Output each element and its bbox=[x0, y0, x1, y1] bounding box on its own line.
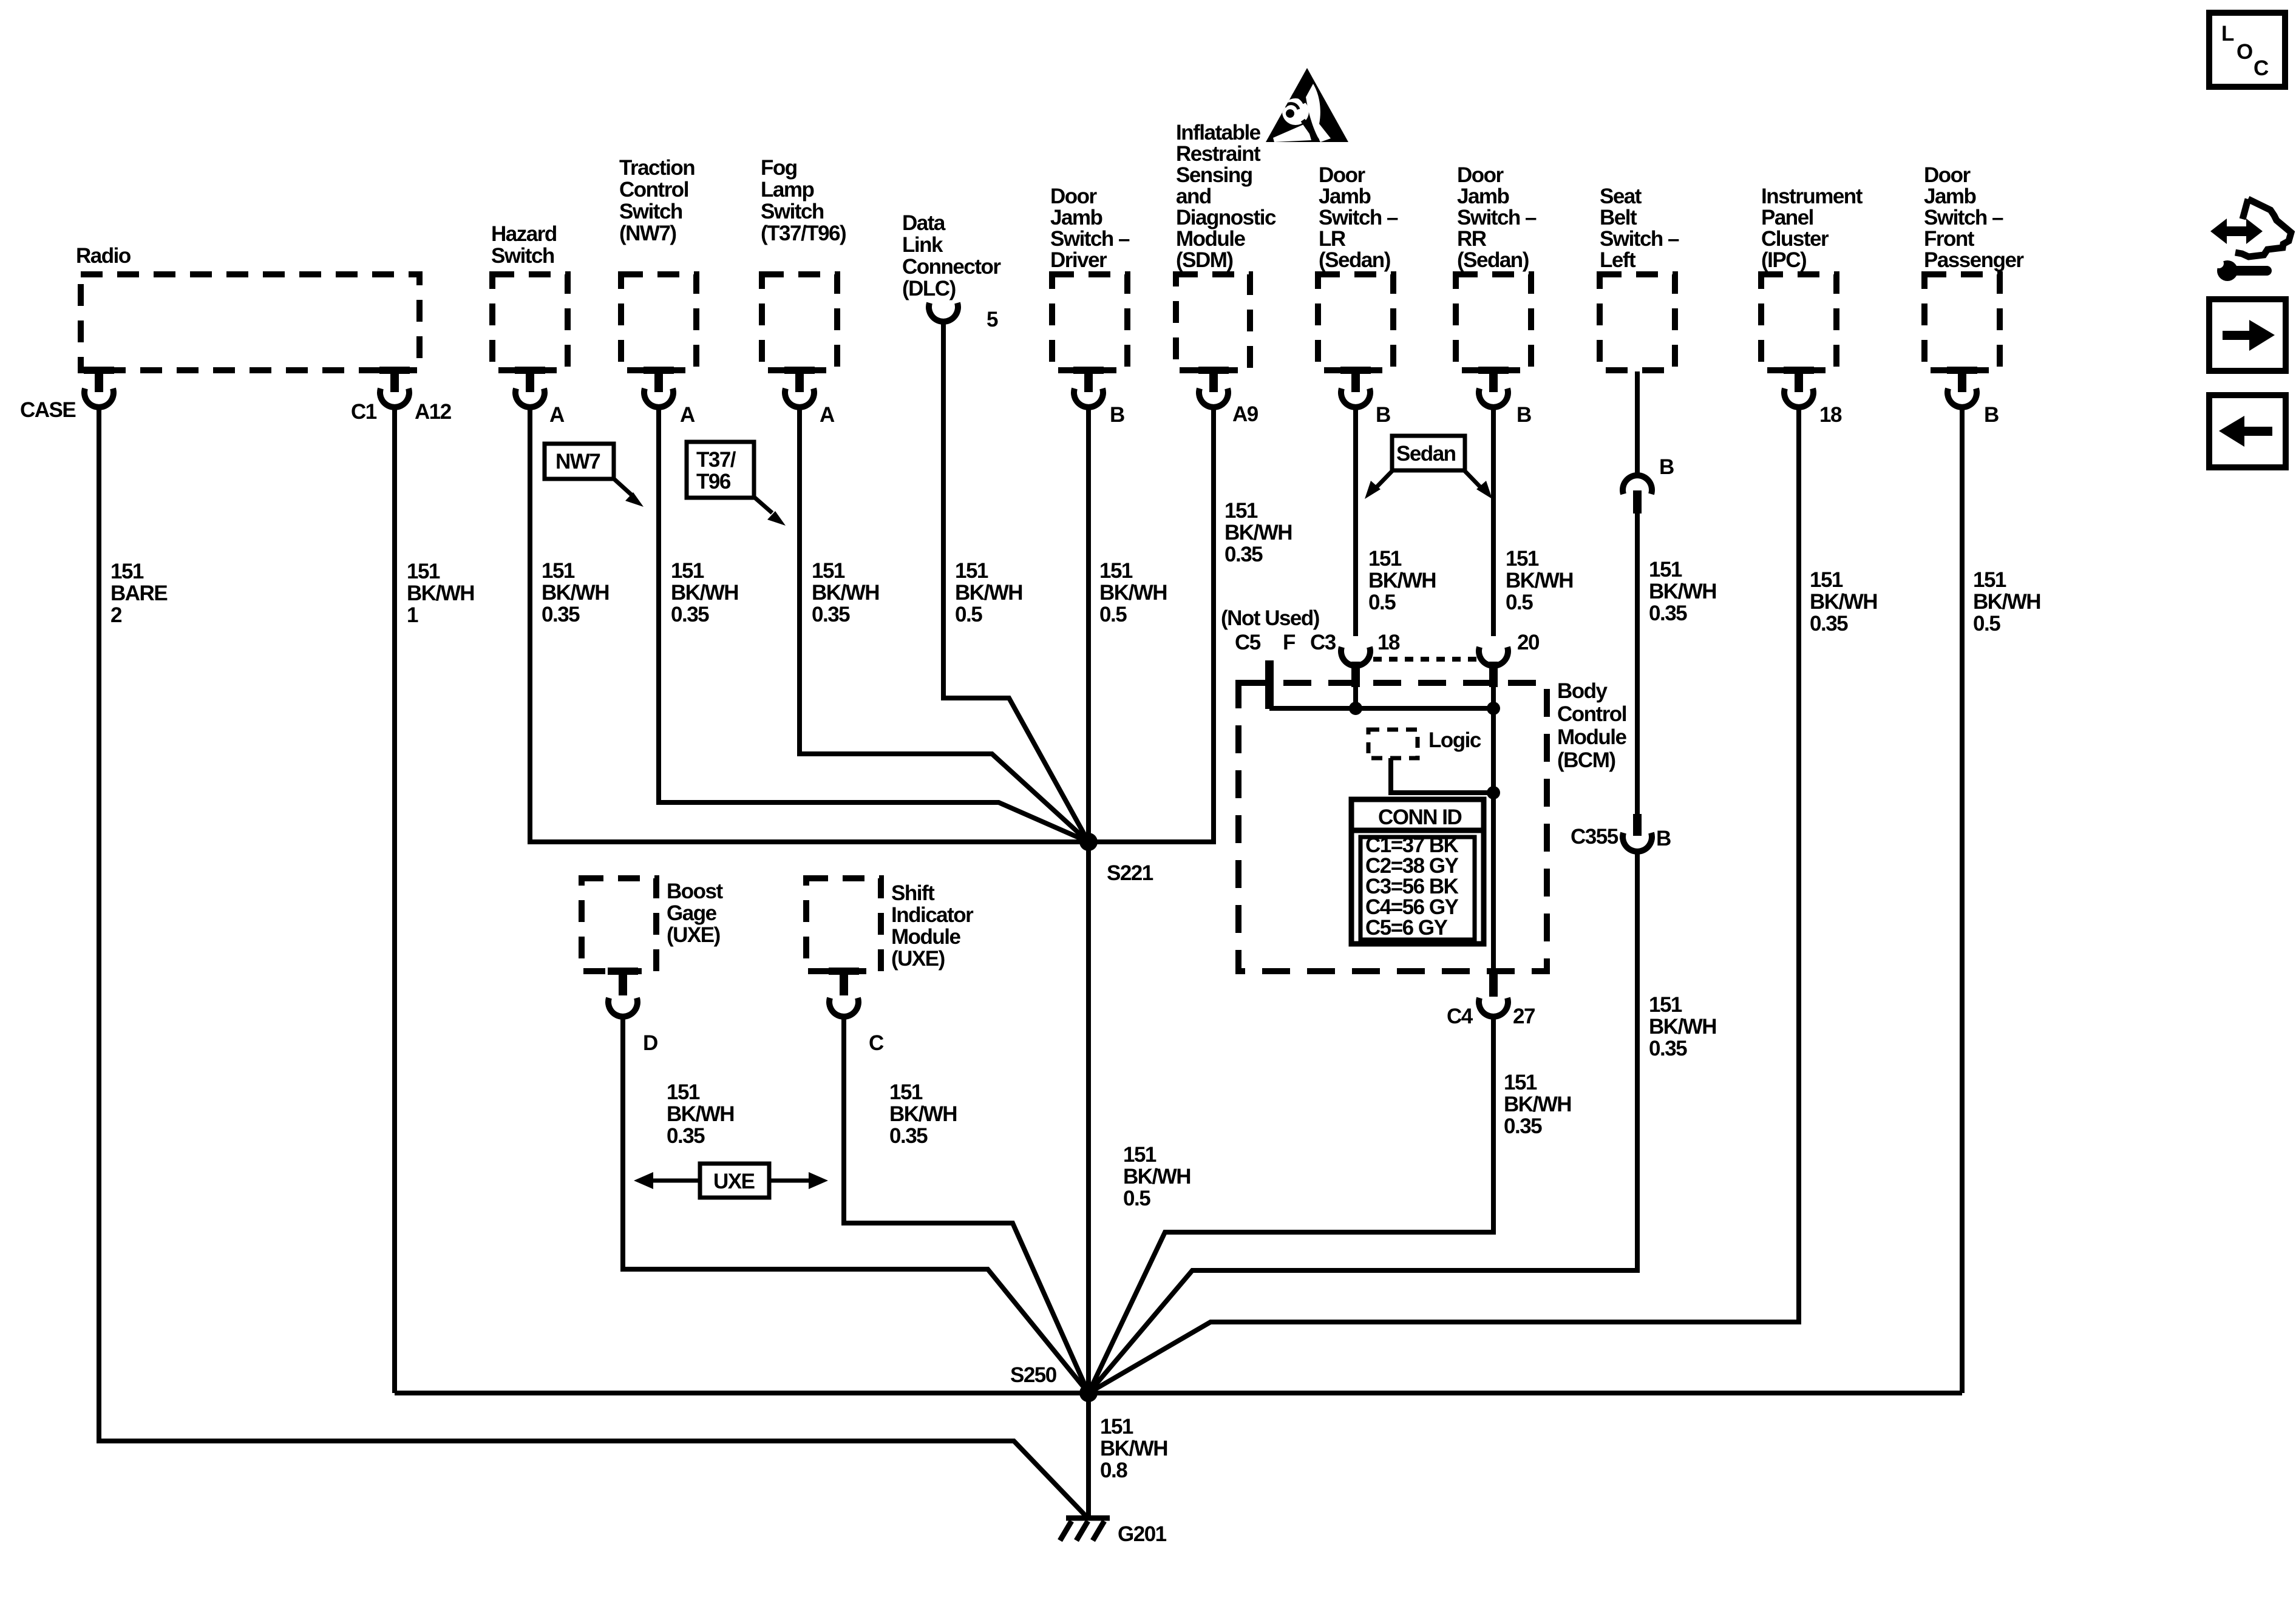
svg-text:S250: S250 bbox=[1010, 1363, 1057, 1387]
svg-text:5: 5 bbox=[987, 308, 998, 331]
svg-text:BK/WH: BK/WH bbox=[1504, 1093, 1571, 1116]
wire BCM logic to RR vertical bbox=[1391, 758, 1493, 793]
component box Instrument Panel Cluster bbox=[1761, 274, 1836, 370]
svg-text:Body: Body bbox=[1557, 679, 1608, 703]
svg-text:Diagnostic: Diagnostic bbox=[1176, 206, 1276, 229]
pin B of door jamb RR bbox=[1478, 367, 1509, 407]
component box Boost Gage (UXE) bbox=[582, 878, 656, 971]
svg-text:(Sedan): (Sedan) bbox=[1457, 248, 1529, 272]
pin B of door jamb driver bbox=[1073, 367, 1104, 407]
svg-text:RR: RR bbox=[1457, 227, 1487, 251]
svg-text:B: B bbox=[1656, 827, 1671, 850]
svg-text:C5: C5 bbox=[1235, 631, 1261, 654]
pin 20 of BCM bbox=[1479, 647, 1508, 708]
svg-text:A12: A12 bbox=[415, 400, 452, 424]
wire door jamb RR to BCM pin 20 bbox=[1491, 405, 1496, 636]
svg-text:BK/WH: BK/WH bbox=[667, 1102, 734, 1126]
svg-text:151: 151 bbox=[1504, 1071, 1537, 1094]
pin CASE of radio (bar, stub, cup) bbox=[84, 367, 114, 407]
svg-text:Jamb: Jamb bbox=[1319, 185, 1371, 208]
wire shift indicator module C to S250 bbox=[844, 1014, 1089, 1393]
svg-text:151: 151 bbox=[1123, 1143, 1156, 1167]
wire CASE: radio CASE pin to ground stem bbox=[99, 405, 1086, 1516]
svg-text:151: 151 bbox=[542, 559, 575, 583]
svg-text:Seat: Seat bbox=[1600, 185, 1642, 208]
pin 5 of DLC (cup only) bbox=[929, 303, 958, 322]
svg-text:151: 151 bbox=[1506, 547, 1539, 571]
svg-text:A9: A9 bbox=[1232, 402, 1258, 426]
svg-text:Indicator: Indicator bbox=[891, 903, 974, 927]
svg-text:0.5: 0.5 bbox=[1973, 612, 2000, 636]
svg-text:B: B bbox=[1659, 455, 1674, 479]
svg-text:C5=6 GY: C5=6 GY bbox=[1365, 916, 1448, 940]
svg-text:Inflatable: Inflatable bbox=[1176, 121, 1261, 144]
pin 27/C4 of BCM bbox=[1479, 974, 1508, 1017]
svg-text:Shift: Shift bbox=[891, 881, 935, 905]
svg-text:O: O bbox=[2237, 40, 2252, 64]
icon LOC box bbox=[2209, 13, 2285, 87]
pin A9 of SDM bbox=[1198, 367, 1229, 407]
svg-text:B: B bbox=[1517, 403, 1531, 427]
svg-text:D: D bbox=[643, 1031, 657, 1055]
svg-text:Link: Link bbox=[902, 233, 943, 257]
component box SDM bbox=[1176, 274, 1250, 370]
wire fog lamp switch A to S221 bbox=[800, 405, 1089, 842]
svg-text:(BCM): (BCM) bbox=[1557, 748, 1615, 772]
component box Shift Indicator Module (UXE) bbox=[806, 878, 881, 971]
svg-text:151: 151 bbox=[812, 559, 845, 583]
callout box NW7 with arrow bbox=[545, 444, 644, 507]
svg-text:Door: Door bbox=[1457, 163, 1504, 187]
component box Door Jamb Switch - Driver bbox=[1052, 274, 1127, 370]
svg-text:Passenger: Passenger bbox=[1924, 248, 2024, 272]
svg-text:BK/WH: BK/WH bbox=[1506, 569, 1573, 592]
svg-text:0.5: 0.5 bbox=[955, 603, 982, 626]
svg-text:(NW7): (NW7) bbox=[619, 222, 676, 245]
svg-text:Switch: Switch bbox=[491, 244, 554, 268]
svg-text:Control: Control bbox=[619, 178, 688, 202]
svg-text:151: 151 bbox=[1649, 558, 1682, 581]
svg-text:18: 18 bbox=[1377, 631, 1400, 654]
callout box T37/T96 with arrow bbox=[687, 442, 786, 526]
component box Fog Lamp Switch (T37/T96) bbox=[762, 274, 837, 370]
svg-text:Fog: Fog bbox=[761, 156, 797, 180]
svg-text:Door: Door bbox=[1319, 163, 1366, 187]
svg-text:C3: C3 bbox=[1310, 631, 1336, 654]
node S250 bbox=[1079, 1384, 1098, 1402]
icon diagnostic tool (double arrow, outline, wrench) bbox=[2210, 199, 2291, 281]
wire door jamb LR to BCM pin 18 bbox=[1353, 405, 1358, 636]
svg-text:Jamb: Jamb bbox=[1924, 185, 1976, 208]
svg-text:T96: T96 bbox=[696, 470, 731, 493]
svg-text:(UXE): (UXE) bbox=[667, 923, 720, 947]
svg-text:BK/WH: BK/WH bbox=[1224, 521, 1292, 544]
node BCM logic junction bbox=[1487, 786, 1500, 799]
svg-text:BK/WH: BK/WH bbox=[1099, 581, 1167, 605]
svg-text:Instrument: Instrument bbox=[1761, 185, 1863, 208]
svg-text:Boost: Boost bbox=[667, 880, 724, 903]
wire BCM C4 pin 27 to S250 bbox=[1089, 1014, 1493, 1393]
svg-text:0.35: 0.35 bbox=[812, 603, 850, 626]
svg-text:T37/: T37/ bbox=[696, 448, 736, 472]
svg-text:2: 2 bbox=[110, 603, 122, 627]
svg-text:(T37/T96): (T37/T96) bbox=[761, 222, 846, 245]
svg-text:Front: Front bbox=[1924, 227, 1975, 251]
svg-text:0.8: 0.8 bbox=[1100, 1459, 1127, 1482]
svg-text:Door: Door bbox=[1924, 163, 1971, 187]
component box Body Control Module (BCM) bbox=[1238, 683, 1547, 971]
svg-text:BK/WH: BK/WH bbox=[812, 581, 879, 605]
pin B of door jamb LR bbox=[1340, 367, 1371, 407]
svg-text:Jamb: Jamb bbox=[1050, 206, 1102, 229]
svg-text:0.35: 0.35 bbox=[1649, 602, 1687, 625]
svg-text:BK/WH: BK/WH bbox=[542, 581, 609, 605]
table CONN ID bbox=[1351, 799, 1484, 944]
svg-text:Driver: Driver bbox=[1050, 248, 1107, 272]
svg-text:0.35: 0.35 bbox=[1649, 1037, 1687, 1060]
callout box Sedan with two arrows bbox=[1365, 436, 1492, 499]
pin B of seat belt switch (cap open-down with stub below) bbox=[1623, 475, 1652, 514]
svg-text:Control: Control bbox=[1557, 702, 1626, 726]
svg-text:151: 151 bbox=[1099, 559, 1133, 583]
wire seat belt switch to pin B connector bbox=[1635, 371, 1640, 477]
svg-text:NW7: NW7 bbox=[555, 450, 600, 473]
wire IPC pin 18 to S250 bbox=[1089, 405, 1799, 1393]
svg-text:UXE: UXE bbox=[713, 1170, 755, 1193]
node S221 bbox=[1079, 833, 1098, 851]
svg-text:A: A bbox=[549, 403, 565, 427]
svg-text:BK/WH: BK/WH bbox=[889, 1102, 957, 1126]
svg-text:0.35: 0.35 bbox=[889, 1124, 928, 1148]
wire door jamb front passenger B down to S250 level bbox=[1960, 405, 1965, 1393]
wire door jamb driver B through S221 down to S250 bbox=[1086, 405, 1091, 1393]
svg-text:151: 151 bbox=[110, 560, 144, 583]
wire SDM A9 to S221 bbox=[1089, 405, 1214, 842]
svg-text:BK/WH: BK/WH bbox=[1973, 590, 2040, 614]
component box Door Jamb Switch - RR bbox=[1456, 274, 1531, 370]
svg-text:Traction: Traction bbox=[619, 156, 695, 180]
component box Hazard Switch bbox=[492, 274, 568, 370]
svg-text:BK/WH: BK/WH bbox=[955, 581, 1022, 605]
svg-text:A: A bbox=[820, 403, 835, 427]
svg-text:BK/WH: BK/WH bbox=[407, 581, 474, 605]
wire traction control switch A to S221 bbox=[659, 405, 1089, 842]
svg-text:Panel: Panel bbox=[1761, 206, 1813, 229]
svg-text:151: 151 bbox=[1810, 568, 1843, 592]
wire A12: radio A12 pin down to S250 level bbox=[392, 405, 397, 1393]
component box Traction Control Switch (NW7) bbox=[621, 274, 696, 370]
svg-text:151: 151 bbox=[1224, 499, 1258, 523]
node BCM bus at pin 20 bbox=[1487, 702, 1500, 715]
svg-text:0.35: 0.35 bbox=[671, 603, 709, 626]
svg-text:Radio: Radio bbox=[76, 244, 131, 268]
svg-text:S221: S221 bbox=[1107, 861, 1153, 885]
pin A of fog lamp switch bbox=[784, 367, 815, 407]
svg-text:0.35: 0.35 bbox=[542, 603, 580, 626]
svg-text:B: B bbox=[1110, 403, 1124, 427]
svg-text:0.35: 0.35 bbox=[1504, 1114, 1542, 1138]
svg-text:BK/WH: BK/WH bbox=[1123, 1165, 1190, 1188]
svg-text:Door: Door bbox=[1050, 185, 1098, 208]
svg-text:Restraint: Restraint bbox=[1176, 142, 1261, 166]
node BCM bus at pin 18 bbox=[1349, 702, 1362, 715]
svg-text:L: L bbox=[2221, 22, 2234, 46]
connector C355 (stub above, cup below) bbox=[1623, 814, 1652, 852]
svg-text:Switch –: Switch – bbox=[1319, 206, 1398, 229]
svg-text:0.5: 0.5 bbox=[1099, 603, 1127, 626]
component box Seat Belt Switch - Left bbox=[1600, 274, 1675, 370]
svg-text:BK/WH: BK/WH bbox=[1649, 580, 1716, 603]
ground G201 symbol bbox=[1060, 1518, 1110, 1541]
svg-text:151: 151 bbox=[667, 1080, 700, 1104]
svg-text:C4: C4 bbox=[1447, 1005, 1473, 1028]
svg-text:Left: Left bbox=[1600, 248, 1636, 272]
svg-text:Logic: Logic bbox=[1428, 728, 1481, 752]
wire dashed link BCM pin 18 to pin 20 bbox=[1373, 657, 1480, 662]
svg-text:0.5: 0.5 bbox=[1506, 591, 1533, 614]
svg-text:LR: LR bbox=[1319, 227, 1346, 251]
svg-text:Sedan: Sedan bbox=[1396, 442, 1456, 466]
wire boost gage D to S250 bbox=[623, 1014, 1089, 1393]
svg-text:and: and bbox=[1176, 185, 1211, 208]
svg-text:151: 151 bbox=[407, 560, 440, 583]
icon SDM airbag warning triangle bbox=[1266, 68, 1348, 142]
svg-text:BK/WH: BK/WH bbox=[671, 581, 738, 605]
svg-text:Gage: Gage bbox=[667, 901, 717, 925]
wire ground stem S250 to G201 bbox=[1086, 1393, 1091, 1517]
svg-text:(DLC): (DLC) bbox=[902, 277, 956, 300]
svg-text:(Sedan): (Sedan) bbox=[1319, 248, 1390, 272]
svg-text:27: 27 bbox=[1513, 1005, 1535, 1028]
svg-text:0.5: 0.5 bbox=[1123, 1187, 1150, 1210]
svg-text:C: C bbox=[2254, 56, 2269, 80]
wire BCM internal bus bbox=[1269, 706, 1493, 711]
svg-text:Switch –: Switch – bbox=[1457, 206, 1537, 229]
svg-text:B: B bbox=[1984, 403, 1999, 427]
pin 18 of IPC bbox=[1784, 367, 1814, 407]
pin 18 of BCM (cup with stub into box) bbox=[1341, 647, 1370, 708]
svg-text:BARE: BARE bbox=[110, 581, 167, 605]
svg-text:Data: Data bbox=[902, 211, 946, 235]
svg-text:Cluster: Cluster bbox=[1761, 227, 1829, 251]
svg-text:C: C bbox=[869, 1031, 884, 1055]
svg-text:(UXE): (UXE) bbox=[891, 947, 945, 971]
pin A of traction control switch bbox=[644, 367, 674, 407]
svg-text:Switch –: Switch – bbox=[1050, 227, 1130, 251]
svg-text:G201: G201 bbox=[1118, 1522, 1167, 1546]
pin D of boost gage bbox=[608, 968, 638, 1017]
wire DLC pin 5 to S221 bbox=[943, 320, 1089, 842]
svg-text:Module: Module bbox=[891, 925, 961, 949]
svg-text:151: 151 bbox=[1368, 547, 1402, 571]
icon left arrow box bbox=[2209, 395, 2286, 467]
svg-text:BK/WH: BK/WH bbox=[1100, 1437, 1167, 1460]
pin C5/F of BCM (not used stub) bbox=[1265, 660, 1274, 709]
icon right arrow box bbox=[2209, 299, 2286, 371]
svg-text:151: 151 bbox=[1649, 993, 1682, 1017]
svg-text:151: 151 bbox=[889, 1080, 923, 1104]
wire S250 horizontal bus bbox=[395, 1391, 1962, 1395]
svg-text:Jamb: Jamb bbox=[1457, 185, 1509, 208]
svg-text:F: F bbox=[1283, 631, 1296, 654]
wire C355 to S250 bbox=[1089, 850, 1637, 1393]
svg-text:CONN ID: CONN ID bbox=[1378, 805, 1462, 829]
pin B of door jamb front passenger bbox=[1947, 367, 1977, 407]
svg-text:Connector: Connector bbox=[902, 255, 1001, 279]
callout box UXE with double arrows bbox=[634, 1164, 828, 1198]
svg-text:Belt: Belt bbox=[1600, 206, 1637, 229]
component box Door Jamb Switch - LR bbox=[1318, 274, 1393, 370]
svg-text:Sensing: Sensing bbox=[1176, 163, 1252, 187]
svg-text:B: B bbox=[1376, 403, 1390, 427]
svg-text:BK/WH: BK/WH bbox=[1649, 1015, 1716, 1039]
svg-text:151: 151 bbox=[1100, 1415, 1133, 1439]
svg-text:C1: C1 bbox=[351, 400, 377, 424]
svg-text:(IPC): (IPC) bbox=[1761, 248, 1806, 272]
svg-text:BK/WH: BK/WH bbox=[1368, 569, 1436, 592]
svg-text:0.35: 0.35 bbox=[1810, 612, 1848, 636]
component box Door Jamb Switch - Front Passenger bbox=[1924, 274, 2000, 370]
svg-text:(Not Used): (Not Used) bbox=[1221, 606, 1319, 630]
svg-text:A: A bbox=[680, 403, 695, 427]
svg-text:20: 20 bbox=[1517, 631, 1540, 654]
svg-text:0.35: 0.35 bbox=[667, 1124, 705, 1148]
svg-text:Switch –: Switch – bbox=[1924, 206, 2003, 229]
svg-text:CASE: CASE bbox=[20, 398, 75, 422]
pin A of hazard switch bbox=[515, 367, 545, 407]
wire BCM internal RR vertical to C4 bbox=[1491, 708, 1496, 976]
svg-text:0.35: 0.35 bbox=[1224, 543, 1263, 566]
svg-text:151: 151 bbox=[1973, 568, 2006, 592]
svg-text:BK/WH: BK/WH bbox=[1810, 590, 1877, 614]
svg-text:Switch: Switch bbox=[761, 200, 824, 223]
pin A12/C1 of radio bbox=[379, 367, 410, 407]
wire hazard switch A to S221 bbox=[530, 405, 1089, 842]
component box Logic (inside BCM) bbox=[1368, 730, 1418, 758]
svg-text:Module: Module bbox=[1176, 227, 1246, 251]
svg-text:C355: C355 bbox=[1571, 825, 1618, 849]
wire seat belt pin B to C355 bbox=[1635, 514, 1640, 814]
svg-text:Switch: Switch bbox=[619, 200, 682, 223]
svg-text:18: 18 bbox=[1819, 403, 1842, 427]
svg-text:Hazard: Hazard bbox=[491, 222, 557, 246]
pin C of shift indicator module bbox=[829, 968, 859, 1017]
svg-text:Lamp: Lamp bbox=[761, 178, 813, 202]
svg-text:Module: Module bbox=[1557, 725, 1627, 749]
svg-text:(SDM): (SDM) bbox=[1176, 248, 1233, 272]
svg-text:Switch –: Switch – bbox=[1600, 227, 1679, 251]
svg-text:151: 151 bbox=[955, 559, 988, 583]
svg-text:0.5: 0.5 bbox=[1368, 591, 1396, 614]
svg-text:151: 151 bbox=[671, 559, 704, 583]
svg-text:1: 1 bbox=[407, 603, 418, 627]
component box Radio bbox=[81, 274, 419, 370]
